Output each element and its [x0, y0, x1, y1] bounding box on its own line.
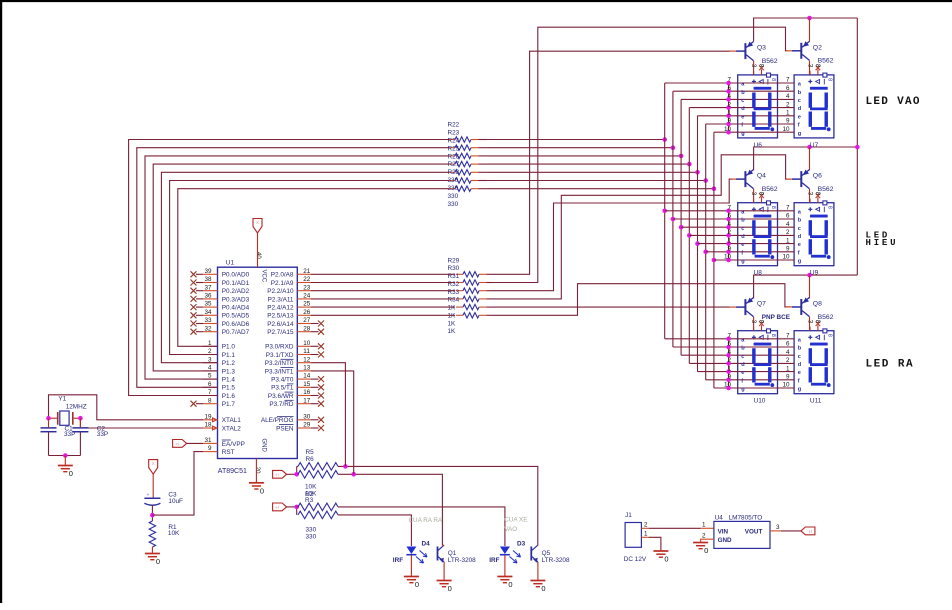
svg-text:f: f: [741, 378, 743, 384]
svg-text:GND: GND: [260, 439, 266, 453]
svg-text:37: 37: [204, 284, 212, 291]
wire U8 pin d: [689, 234, 737, 236]
svg-text:P0.3/AD3: P0.3/AD3: [222, 296, 250, 303]
U4 GND stub: [701, 539, 714, 542]
svg-text:33: 33: [204, 317, 212, 324]
U4 VOUT stub: [770, 530, 781, 532]
x-mark P3.0: [311, 345, 319, 347]
svg-text:P0.6/AD6: P0.6/AD6: [222, 321, 250, 328]
wire U6 pin c: [681, 98, 738, 100]
transistor Q2: [792, 41, 809, 60]
mcu U1 box: [218, 267, 298, 458]
svg-text:0: 0: [541, 584, 545, 593]
wire P2.2 to Q4 base: [493, 179, 734, 291]
junction cap gnd: [63, 453, 68, 458]
svg-text:0: 0: [260, 486, 264, 495]
wire through to right display pin 9: [737, 379, 795, 381]
svg-text:1: 1: [727, 110, 731, 117]
svg-text:U6: U6: [754, 142, 763, 149]
junction VAO pin e: [726, 114, 731, 119]
pin stub P1.6: [203, 395, 218, 397]
svg-text:P2.7/A15: P2.7/A15: [267, 329, 294, 336]
svg-text:R30: R30: [448, 265, 460, 272]
resistor R27: [455, 178, 471, 183]
wire J1 to U4 VIN: [649, 527, 701, 529]
resistor R29 stub right: [479, 273, 487, 275]
junction P3.3 R6: [351, 472, 356, 477]
wire RST net: [152, 452, 203, 515]
svg-text:LED RA: LED RA: [866, 359, 915, 371]
ground U4: [693, 543, 708, 556]
wire P2.0 to Q3 base: [493, 51, 730, 274]
svg-text:DC 12V: DC 12V: [624, 556, 647, 563]
svg-text:9: 9: [727, 374, 731, 381]
x-mark P3.5: [311, 386, 319, 388]
svg-text:2: 2: [727, 357, 731, 364]
svg-text:P3.6/WR: P3.6/WR: [268, 393, 294, 400]
wire through to right display pin 10: [737, 387, 795, 389]
svg-text:PNP BCE: PNP BCE: [762, 314, 791, 321]
junction HIEU pin d: [726, 233, 731, 238]
svg-text:c: c: [798, 98, 801, 104]
wire segment row 4 right: [487, 155, 682, 157]
svg-text:P3.2/INT0: P3.2/INT0: [265, 360, 294, 367]
Q8 collector wire: [809, 317, 811, 331]
svg-text:P3.7/RD: P3.7/RD: [269, 401, 294, 408]
svg-text:R25: R25: [448, 145, 460, 152]
svg-text:IRF: IRF: [489, 557, 499, 564]
svg-text:c: c: [741, 98, 744, 104]
resistor R33 stub left: [456, 306, 463, 308]
led D4: [406, 547, 416, 555]
wire D3 to ground: [504, 555, 506, 576]
svg-text:34: 34: [204, 309, 212, 316]
pin stub XTAL1: [203, 419, 218, 421]
svg-text:U11: U11: [810, 398, 822, 405]
wire P1.2 to segment row: [161, 172, 449, 362]
svg-text:f: f: [798, 378, 800, 384]
svg-text:e: e: [798, 114, 801, 120]
wire segment row 6 right: [487, 139, 665, 141]
wire C1 bottom: [48, 432, 50, 456]
pin stub XTAL2: [203, 427, 218, 429]
wire P2.0 row: [311, 273, 455, 275]
svg-text:8: 8: [758, 320, 765, 324]
svg-text:e: e: [741, 242, 744, 248]
svg-text:Y1: Y1: [58, 395, 66, 402]
svg-text:U8: U8: [754, 270, 763, 277]
wire terminal to R2 R3: [287, 506, 297, 508]
wire P1.4 to segment row: [145, 156, 449, 379]
svg-text:P0.4/AD4: P0.4/AD4: [222, 305, 250, 312]
EA/VPP terminal: [173, 440, 187, 448]
wire U6 pin a: [665, 82, 738, 84]
regulator U4 box: [714, 521, 770, 548]
svg-text:HIEU: HIEU: [866, 238, 899, 248]
resistor R31 stub right: [479, 290, 487, 292]
terminal IN1: [273, 470, 287, 478]
ground R1: [145, 554, 160, 567]
junction terminal R6: [294, 472, 299, 477]
svg-text:LED VAO: LED VAO: [866, 96, 921, 108]
svg-text:35: 35: [204, 301, 212, 308]
svg-text:R6: R6: [306, 456, 315, 463]
junction rail1 Q2 emitter: [807, 16, 812, 21]
svg-text:1: 1: [727, 365, 731, 372]
svg-text:EA/VPP: EA/VPP: [222, 441, 245, 448]
svg-text:7: 7: [727, 333, 731, 340]
svg-text:d: d: [798, 106, 802, 112]
wire through to right display pin 4: [737, 354, 795, 356]
wire through to right display pin 10: [737, 131, 795, 133]
display U7: [794, 64, 834, 138]
GND pin 20 wire: [255, 459, 257, 483]
wire U10 pin a: [665, 338, 738, 340]
tie vertical VAO group: [728, 83, 730, 132]
svg-text:P2.5/A13: P2.5/A13: [267, 313, 294, 320]
svg-text:R26: R26: [448, 153, 460, 160]
pin stub P2.7: [297, 331, 311, 333]
wire segment row 3 right: [487, 163, 690, 165]
svg-text:330: 330: [448, 201, 459, 208]
svg-text:2: 2: [644, 522, 648, 529]
svg-text:8: 8: [770, 78, 776, 81]
junction P1.4 row to bus: [679, 154, 684, 159]
svg-text:d: d: [798, 234, 802, 240]
svg-text:D4: D4: [422, 540, 431, 547]
wire Y1 right to XTAL2: [80, 418, 203, 428]
pin stub P2.4: [297, 306, 311, 308]
transistor Q8: [792, 297, 809, 316]
svg-text:330: 330: [448, 185, 459, 192]
svg-text:ALE/PROG: ALE/PROG: [261, 417, 294, 424]
svg-text:d: d: [741, 362, 745, 368]
Q8 base stub: [787, 306, 794, 308]
wire VOUT to +5V tag: [781, 530, 801, 532]
svg-text:VAO: VAO: [504, 526, 517, 533]
svg-text:8: 8: [758, 192, 765, 196]
svg-text:33P: 33P: [97, 431, 108, 438]
transistor Q3: [736, 42, 753, 61]
junction HIEU pin g: [726, 258, 731, 263]
svg-text:LM7805/TO: LM7805/TO: [729, 515, 763, 522]
svg-text:3: 3: [806, 320, 813, 324]
resistor R30 stub left: [456, 282, 463, 284]
resistor R24 stub left: [449, 155, 455, 157]
resistor R24: [455, 153, 471, 158]
svg-text:0: 0: [704, 546, 708, 555]
crystal Y1: [58, 411, 73, 425]
transistor Q7: [736, 298, 753, 317]
svg-text:3: 3: [776, 524, 780, 531]
resistor R30: [463, 280, 479, 285]
resistor R34 stub left: [456, 314, 463, 316]
svg-text:R29: R29: [448, 257, 460, 264]
wire segment row 5 right: [487, 147, 673, 149]
Q2 collector wire: [809, 61, 811, 75]
wire P2.4 row: [311, 306, 455, 308]
wire through to right display pin 7: [737, 338, 795, 340]
resistor R3: [298, 511, 338, 519]
wire P1.1 to segment row: [170, 181, 449, 355]
wire U6 pin e: [698, 115, 738, 117]
svg-text:VCC: VCC: [260, 270, 266, 283]
display digit segments: [809, 215, 831, 259]
pin stub P1.7: [203, 403, 218, 405]
tie vertical RA group: [728, 339, 730, 388]
svg-text:8: 8: [814, 320, 821, 324]
VCC power terminal: [253, 219, 262, 234]
+5V power tag: [801, 527, 815, 535]
svg-text:b: b: [798, 346, 802, 352]
page border top: [0, 0, 952, 2]
junction RA pin f: [726, 378, 731, 383]
resistor R33 stub right: [479, 306, 487, 308]
svg-text:8: 8: [827, 78, 833, 81]
svg-text:R5: R5: [306, 449, 315, 456]
svg-text:6: 6: [727, 85, 731, 92]
resistor R5: [297, 465, 298, 467]
wire U8 pin g: [714, 259, 738, 261]
svg-text:P2.3/A11: P2.3/A11: [268, 296, 294, 303]
phototransistor Q5: [530, 545, 538, 563]
svg-text:20: 20: [254, 467, 260, 474]
svg-text:3: 3: [750, 64, 757, 68]
pin stub P1.1: [203, 354, 218, 356]
wire through to right display pin 4: [737, 226, 795, 228]
wire R3 to D4: [338, 515, 411, 546]
junction crystal right: [78, 416, 83, 421]
junction P3.2 R5: [343, 464, 348, 469]
bus segment f vertical: [705, 124, 707, 380]
svg-text:VOUT: VOUT: [745, 528, 763, 535]
svg-text:1: 1: [702, 522, 706, 529]
pin stub P3.5: [297, 386, 311, 388]
svg-text:e: e: [798, 242, 801, 248]
J1 pin 2 stub: [641, 527, 649, 529]
svg-text:P1.7: P1.7: [222, 401, 236, 408]
ground crystal: [58, 466, 73, 479]
resistor R22: [455, 137, 471, 142]
pin stub P2.0: [297, 273, 311, 275]
svg-text:P1.4: P1.4: [222, 377, 236, 384]
svg-text:P3.3/INT1: P3.3/INT1: [265, 368, 294, 375]
page border left: [0, 0, 2, 603]
pin stub P3.6: [297, 395, 311, 397]
wire C3 to R1: [151, 505, 153, 521]
junction bus a at U8 row: [662, 209, 667, 214]
x-mark P0.3 pin 36: [191, 296, 197, 302]
x-mark P3.4: [311, 378, 319, 380]
svg-text:e: e: [798, 370, 801, 376]
resistor R23 stub right: [471, 147, 479, 149]
connector J1 box: [625, 523, 641, 548]
svg-text:+: +: [147, 493, 150, 499]
svg-text:1K: 1K: [448, 312, 457, 319]
svg-text:g: g: [741, 259, 745, 265]
junction HIEU pin f: [726, 250, 731, 255]
wire U10 pin e: [698, 371, 738, 373]
wire P2.1 to Q2 base: [493, 27, 787, 282]
pin stub P3.2: [297, 362, 311, 364]
svg-text:c: c: [741, 226, 744, 232]
resistor R32 stub right: [479, 298, 487, 300]
resistor R26: [455, 170, 471, 175]
svg-text:H: H: [175, 442, 178, 447]
svg-text:P1.3: P1.3: [222, 368, 236, 375]
resistor R27 stub left: [449, 180, 455, 182]
svg-text:XTAL1: XTAL1: [222, 417, 242, 424]
svg-text:P3.0/RXD: P3.0/RXD: [265, 344, 294, 351]
Q7 collector wire: [753, 317, 755, 331]
pin stub P2.6: [297, 323, 311, 325]
wire segment row 1 right: [487, 180, 706, 182]
svg-text:AT89C51: AT89C51: [218, 468, 247, 475]
Q1 collector stub: [442, 544, 444, 546]
svg-text:0: 0: [156, 557, 160, 566]
x-mark P3.6: [311, 395, 319, 397]
x-mark P0.2 pin 37: [191, 288, 197, 294]
svg-text:X: X: [152, 461, 155, 466]
resistor R25: [455, 161, 471, 166]
svg-text:36: 36: [204, 293, 212, 300]
capacitor C2: [72, 428, 88, 432]
svg-text:g: g: [798, 131, 802, 137]
resistor R33: [463, 304, 479, 309]
pin stub P3.1: [297, 354, 311, 356]
wire P3.2 to R5: [311, 363, 345, 467]
right vertical power wire: [856, 18, 858, 275]
junction RA pin d: [726, 361, 731, 366]
x-mark P3.7: [311, 403, 319, 405]
svg-text:0: 0: [69, 469, 73, 478]
svg-text:c: c: [798, 226, 801, 232]
display U11: [794, 320, 834, 394]
pin stub EA: [203, 442, 218, 444]
Q3 collector wire: [753, 61, 755, 75]
pin stub PSEN: [297, 427, 311, 429]
wire through to right display pin 6: [737, 346, 795, 348]
resistor R26 stub right: [471, 171, 479, 173]
svg-text:R27: R27: [448, 161, 460, 168]
wire U8 pin f: [706, 251, 738, 253]
svg-text:LTR-3208: LTR-3208: [542, 557, 570, 564]
display U6: [738, 64, 778, 138]
svg-text:0: 0: [508, 580, 512, 589]
Q5 collector stub: [537, 544, 539, 546]
svg-text:39: 39: [204, 268, 212, 275]
svg-text:P0.0/AD0: P0.0/AD0: [222, 272, 250, 279]
svg-text:b: b: [741, 346, 745, 352]
pin stub P3.7: [297, 403, 311, 405]
display digit segments: [809, 343, 831, 387]
pin stub P0.4: [203, 306, 218, 308]
svg-text:X: X: [256, 220, 259, 225]
pin stub P1.2: [203, 362, 218, 364]
svg-text:IRF: IRF: [393, 557, 403, 564]
pin stub P1.5: [203, 386, 218, 388]
x-mark P0.7 pin 32: [191, 329, 197, 335]
VCC pin 40 wire: [257, 233, 259, 267]
wire Q5 emitter to ground: [537, 562, 539, 580]
svg-text:CUA XE: CUA XE: [504, 516, 527, 523]
svg-text:0: 0: [415, 580, 419, 589]
svg-text:R23: R23: [448, 130, 460, 137]
wire R2 to D3: [338, 507, 505, 546]
junction VAO pin c: [726, 97, 731, 102]
J1 pin 1 stub: [641, 536, 649, 538]
wire EA terminal: [187, 442, 203, 444]
wire P1.3 to segment row: [153, 164, 449, 371]
wire R1 to ground: [151, 547, 153, 553]
ground D3: [497, 577, 512, 590]
ground Q1: [437, 581, 452, 594]
resistor R24 stub right: [471, 155, 479, 157]
svg-text:1: 1: [644, 531, 648, 538]
wire D4 to ground: [410, 555, 412, 576]
ground J1: [653, 551, 668, 564]
svg-text:f: f: [798, 250, 800, 256]
svg-text:P1.1: P1.1: [222, 352, 236, 359]
junction rail3 Q8 emitter: [807, 273, 812, 278]
junction HIEU pin a: [726, 209, 731, 214]
junction RA pin a: [726, 337, 731, 342]
svg-text:b: b: [741, 218, 745, 224]
wire U10 pin f: [706, 379, 738, 381]
junction HIEU pin b: [726, 217, 731, 222]
wire P1.5 to segment row: [137, 148, 449, 388]
svg-text:10: 10: [724, 254, 732, 261]
Q6 base stub: [787, 178, 794, 180]
svg-text:VIN: VIN: [718, 528, 729, 535]
svg-text:H: H: [809, 529, 812, 534]
bus segment e vertical: [697, 116, 699, 372]
display U10: [738, 320, 778, 394]
transistor Q6: [792, 170, 809, 189]
wire C2 top: [79, 418, 81, 428]
svg-text:g: g: [798, 259, 802, 265]
svg-text:R24: R24: [448, 137, 460, 144]
wire through to right display pin 7: [737, 210, 795, 212]
x-mark PSEN: [311, 427, 319, 429]
VCC terminal for RST: [149, 460, 158, 475]
junction rail2 right vertical: [855, 145, 860, 150]
wire VCC to C3: [152, 474, 154, 498]
junction HIEU pin e: [726, 241, 731, 246]
svg-text:8: 8: [814, 192, 821, 196]
svg-text:0: 0: [448, 584, 452, 593]
svg-text:LTR-3208: LTR-3208: [448, 557, 476, 564]
junction bus d at U8 row: [687, 233, 692, 238]
svg-text:R28: R28: [448, 169, 460, 176]
junction RA pin e: [726, 369, 731, 374]
junction crystal left: [46, 416, 51, 421]
svg-text:4: 4: [727, 349, 731, 356]
svg-text:6: 6: [727, 341, 731, 348]
svg-text:R22: R22: [448, 122, 460, 129]
resistor R2: [297, 506, 298, 508]
svg-text:b: b: [798, 218, 802, 224]
resistor R22 stub left: [449, 139, 455, 141]
Q8 emitter wire: [809, 275, 811, 298]
junction P1.5 row to bus: [671, 145, 676, 150]
VCC rail 3 (LED RA): [754, 275, 858, 298]
svg-text:e: e: [741, 370, 744, 376]
wire U10 pin c: [681, 354, 738, 356]
wire through to right display pin 1: [737, 243, 795, 245]
display digit segments: [752, 215, 774, 259]
svg-text:10: 10: [724, 382, 732, 389]
